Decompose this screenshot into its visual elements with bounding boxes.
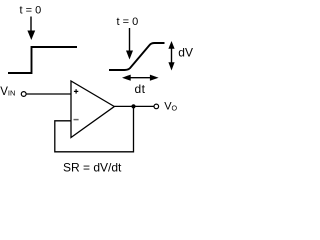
svg-text:t = 0: t = 0 <box>117 16 139 28</box>
svg-text:SR = dV/dt: SR = dV/dt <box>63 161 122 175</box>
svg-text:t = 0: t = 0 <box>20 4 42 16</box>
svg-text:dV: dV <box>178 46 193 60</box>
svg-text:dt: dt <box>135 82 146 96</box>
